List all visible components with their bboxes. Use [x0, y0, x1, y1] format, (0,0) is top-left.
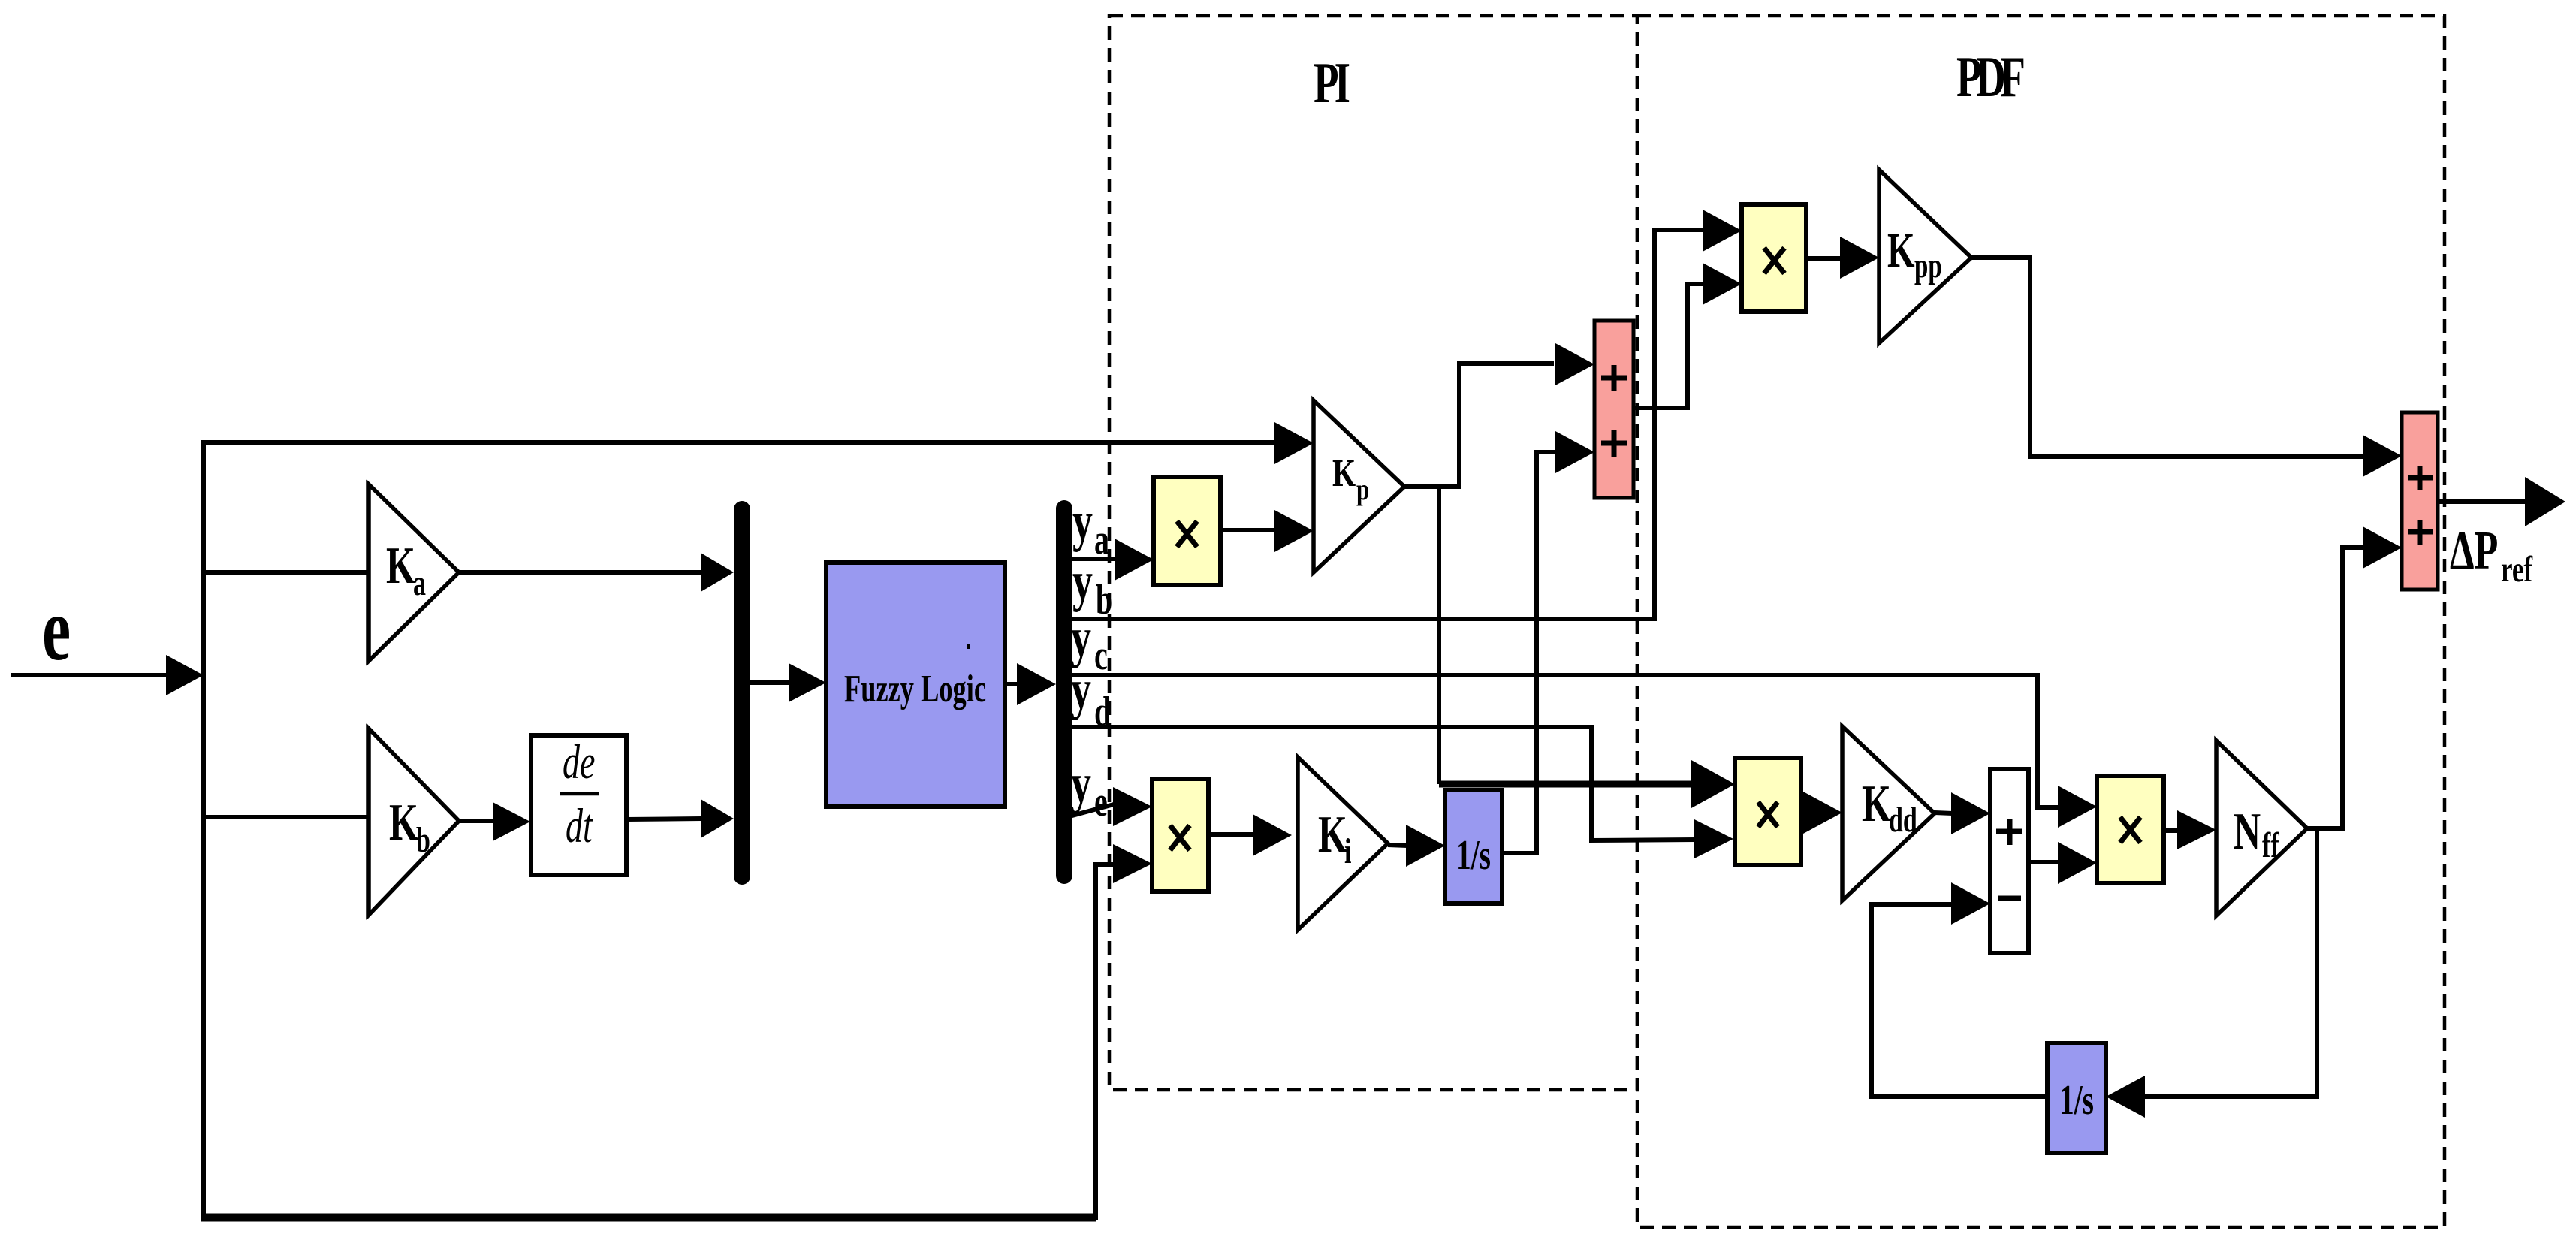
- wire yc to multiplier X2 input 1: [1072, 675, 2097, 828]
- PDF dashed boundary box: [1637, 16, 2445, 1227]
- svg-text:K: K: [386, 537, 415, 595]
- wire yd to multiplier X1 input 2: [1072, 727, 1733, 858]
- integrator 2 block 1/s: [2047, 1043, 2106, 1153]
- wire integrator 1 output to sum1 input 2: [1502, 431, 1594, 853]
- svg-text:ref: ref: [2501, 549, 2533, 590]
- svg-text:i: i: [1344, 831, 1351, 870]
- PI dashed boundary box: [1109, 16, 1637, 1090]
- label Kb: [389, 794, 430, 859]
- wire Kdd output to plus-minus sum: [1935, 792, 1990, 834]
- wire integrator 2 output to plus-minus minus input: [1872, 882, 2047, 1097]
- wire ya to multiplier Xa: [1072, 539, 1154, 581]
- wire top branch e direct to Kp input 1: [201, 422, 1314, 464]
- svg-text:a: a: [413, 563, 426, 602]
- label ye: [1071, 752, 1108, 825]
- wire e input with arrow into trunk node: [11, 655, 204, 695]
- multiplier X1 (PDF bottom left): [1735, 758, 1801, 865]
- label Ka: [386, 537, 426, 602]
- multiplier Xpp (PDF top): [1742, 204, 1806, 312]
- wire thick Kp signal to multiplier X1 input 1: [1439, 760, 1735, 808]
- mux bar 1 (input mux): [734, 509, 750, 876]
- multiplier Xe (PI bottom): [1152, 779, 1208, 892]
- wire final output dPref: [2438, 477, 2565, 526]
- gain triangle Kb: [369, 729, 459, 915]
- wire ye to multiplier Xe input 1: [1069, 787, 1152, 826]
- Fuzzy Logic block: [826, 563, 1005, 807]
- gain triangle Kp: [1314, 400, 1404, 572]
- gain triangle Kpp: [1879, 170, 1971, 343]
- wire Ki output to integrator 1: [1388, 825, 1445, 867]
- label yd: [1071, 658, 1111, 735]
- svg-text:y: y: [1072, 490, 1093, 553]
- wire Fuzzy Logic output to mux2: [1005, 663, 1056, 705]
- gain triangle Nff: [2216, 741, 2307, 916]
- derivative block de/dt: [531, 735, 626, 875]
- wire multiplier Xa output to Kp input 2: [1220, 510, 1314, 552]
- svg-text:K: K: [1318, 806, 1347, 864]
- svg-text:a: a: [1094, 517, 1109, 563]
- label Kdd: [1862, 775, 1917, 839]
- svg-text:y: y: [1071, 752, 1091, 815]
- wire sum1 output to multiplier Xpp input 2: [1633, 263, 1742, 408]
- wire multiplier Xpp output to Kpp: [1806, 237, 1879, 279]
- label yb: [1072, 550, 1112, 623]
- gain triangle Ka: [369, 484, 459, 661]
- multiplier X2 (PDF before Nff): [2097, 776, 2164, 883]
- label ya: [1072, 490, 1109, 563]
- final sum block: [2402, 412, 2438, 590]
- wire Ka branch: [201, 570, 369, 575]
- wire de/dt output to mux1: [626, 799, 734, 838]
- wire Kb branch: [201, 815, 369, 819]
- wire Ka output to mux1: [459, 553, 734, 592]
- svg-text:d: d: [1094, 689, 1111, 735]
- integrator 1 block 1/s: [1445, 790, 1502, 904]
- wire Nff output junction to final sum input 2: [2306, 526, 2402, 828]
- wire Kpp output to final sum input 1: [1971, 258, 2402, 477]
- svg-text:ff: ff: [2262, 825, 2280, 864]
- svg-text:dd: dd: [1889, 799, 1917, 839]
- gain triangle Kdd: [1842, 726, 1935, 901]
- label Kpp: [1887, 223, 1942, 285]
- mux bar 2 (fuzzy output demux): [1056, 508, 1072, 876]
- svg-text:b: b: [416, 819, 430, 859]
- svg-text:PDF: PDF: [1956, 45, 2026, 109]
- sum block 1 (PI sum): [1594, 321, 1633, 498]
- svg-text:e: e: [1094, 779, 1108, 825]
- plus-minus sum block: [1990, 769, 2029, 953]
- svg-text:K: K: [1862, 775, 1891, 833]
- label Nff: [2234, 803, 2280, 864]
- svg-text:K: K: [1332, 452, 1356, 495]
- svg-text:PI: PI: [1314, 51, 1350, 115]
- svg-text:ΔP: ΔP: [2450, 520, 2498, 581]
- label dPref: [2450, 520, 2533, 590]
- svg-text:K: K: [1887, 223, 1915, 277]
- svg-text:1/s: 1/s: [2059, 1077, 2094, 1124]
- svg-text:de: de: [563, 736, 595, 789]
- wire plus-minus output to multiplier X2 input 2: [2029, 842, 2097, 884]
- wire feedback bottom line: [201, 1214, 1096, 1222]
- svg-text:p: p: [1356, 472, 1369, 506]
- wire Kp output with junction to sum1 input 1: [1404, 343, 1594, 487]
- multiplier Xa (PI top): [1154, 477, 1220, 585]
- wire trunk vertical from top branch down to feedback corner: [201, 442, 206, 1216]
- gain triangle Ki: [1298, 757, 1388, 930]
- wire multiplier X2 output to Nff: [2164, 810, 2216, 849]
- label Ki: [1318, 806, 1351, 870]
- wire Kp junction down: [1437, 487, 1441, 784]
- svg-text:Fuzzy Logic: Fuzzy Logic: [844, 667, 986, 710]
- wire multiplier Xe output to Ki: [1208, 814, 1292, 856]
- svg-text:b: b: [1096, 577, 1112, 623]
- label Kp: [1332, 452, 1369, 506]
- wire Nff junction down to integrator 2 input: [2106, 828, 2317, 1118]
- svg-text:pp: pp: [1914, 246, 1942, 285]
- svg-text:y: y: [1071, 658, 1091, 721]
- svg-text:K: K: [389, 794, 418, 852]
- wire mux1 output to Fuzzy Logic: [750, 663, 826, 702]
- svg-text:N: N: [2234, 803, 2261, 861]
- svg-text:c: c: [1094, 632, 1108, 679]
- svg-text:y: y: [1072, 550, 1093, 613]
- wire multiplier X1 output to Kdd: [1801, 792, 1842, 834]
- svg-text:dt: dt: [566, 800, 593, 853]
- label yc: [1071, 606, 1108, 678]
- wire feedback riser to multiplier Xe input 2: [1096, 844, 1152, 1220]
- wire Kb output to de/dt: [459, 802, 530, 841]
- svg-text:e: e: [42, 579, 71, 679]
- wire yb to multiplier Xpp input 1: [1072, 210, 1742, 619]
- svg-text:1/s: 1/s: [1456, 832, 1491, 879]
